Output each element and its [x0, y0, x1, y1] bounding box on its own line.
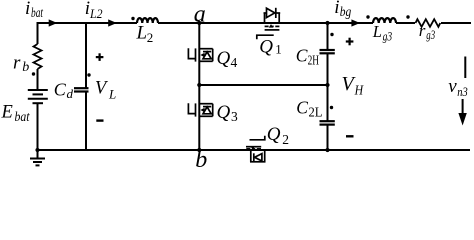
node dot bottom C2 branch — [325, 148, 329, 152]
svg-text:r: r — [13, 53, 21, 74]
svg-text:L: L — [372, 22, 382, 41]
svg-text:C: C — [54, 80, 67, 100]
svg-text:2H: 2H — [308, 53, 320, 68]
current arrow i_bg — [351, 19, 360, 26]
svg-text:C: C — [296, 98, 308, 118]
svg-text:g3: g3 — [426, 27, 435, 42]
node dot mid right — [325, 83, 329, 87]
capacitor C2L — [320, 121, 335, 124]
node b dot — [197, 148, 201, 152]
polarity dot Cd — [87, 73, 90, 76]
svg-text:i: i — [25, 0, 30, 19]
node dot top C2 branch — [325, 21, 329, 25]
svg-text:i: i — [334, 0, 339, 18]
wire Cd branch lower — [85, 91, 87, 150]
svg-text:2: 2 — [147, 30, 154, 45]
svg-text:L: L — [108, 86, 116, 101]
polarity dot rb — [32, 72, 35, 75]
svg-text:bg: bg — [340, 4, 352, 19]
svg-text:Q: Q — [217, 102, 231, 123]
transistor Q3 — [188, 103, 212, 116]
svg-text:H: H — [354, 84, 364, 99]
svg-text:bat: bat — [15, 110, 31, 125]
svg-text:Q: Q — [217, 48, 231, 69]
capacitor Cd — [74, 88, 89, 91]
inductor L2 — [137, 18, 158, 23]
svg-text:C: C — [296, 46, 308, 66]
wire top bus right of Lg3 — [396, 22, 415, 24]
polarity dot C2L — [330, 106, 333, 109]
current arrow i_bat — [49, 19, 58, 26]
svg-text:r: r — [419, 21, 426, 40]
svg-text:a: a — [194, 2, 206, 28]
node a dot — [197, 21, 201, 25]
polarity dot rg3 — [406, 15, 409, 18]
polarity dot L2 — [131, 17, 134, 20]
wire mid link — [199, 84, 327, 86]
wire Cd branch upper — [85, 23, 87, 88]
wire battery branch lower — [37, 104, 39, 151]
svg-text:L: L — [136, 23, 148, 44]
capacitor C2H — [320, 50, 335, 53]
wire top bus mid — [158, 22, 373, 24]
voltage arrow v_n3 upper segment — [464, 57, 466, 79]
transistor Q2 — [246, 136, 266, 162]
polarity dot Lg3 — [366, 15, 369, 18]
svg-text:Q: Q — [267, 124, 281, 145]
svg-text:g3: g3 — [383, 28, 393, 43]
node dot ground junction — [35, 148, 39, 152]
resistor rg3 — [416, 19, 441, 27]
plus sign VH — [346, 40, 354, 42]
wire battery branch upper — [37, 22, 39, 44]
svg-text:d: d — [67, 86, 74, 101]
minus sign VH — [346, 135, 354, 137]
svg-text:Q: Q — [259, 37, 273, 58]
svg-text:n3: n3 — [457, 84, 468, 99]
svg-text:v: v — [448, 76, 457, 97]
battery Ebat — [28, 90, 48, 103]
node dot mid left — [197, 83, 201, 87]
svg-text:3: 3 — [231, 109, 238, 124]
polarity dot C2H — [330, 33, 333, 36]
svg-text:2: 2 — [282, 132, 289, 147]
transistor Q4 — [188, 48, 212, 61]
transistor Q1 — [264, 8, 281, 30]
plus sign VL — [96, 56, 104, 58]
svg-text:b: b — [195, 147, 207, 173]
current arrow i_L2 — [108, 19, 117, 26]
svg-text:1: 1 — [275, 42, 282, 57]
svg-text:4: 4 — [231, 55, 238, 70]
svg-text:E: E — [1, 103, 13, 123]
svg-text:bat: bat — [31, 5, 44, 20]
svg-text:b: b — [22, 60, 29, 75]
voltage arrow v_n3 shaft and head — [462, 99, 464, 114]
svg-text:2L: 2L — [309, 105, 323, 120]
inductor Lg3 — [373, 18, 396, 23]
wire Q4 Q3 branch a to b — [198, 23, 200, 150]
overline of Q1 label — [257, 35, 274, 39]
resistor rb — [34, 44, 42, 69]
svg-text:L2: L2 — [89, 6, 103, 21]
wire battery branch mid — [37, 69, 39, 90]
ground — [37, 150, 39, 159]
minus sign VL — [96, 119, 103, 121]
wire C2 branch mid — [327, 54, 329, 122]
wire bottom bus — [37, 149, 471, 151]
wire top bus far right — [441, 22, 471, 24]
wire C2 branch lower — [327, 125, 329, 150]
wire C2 branch upper — [327, 23, 329, 50]
wire top bus left — [37, 22, 138, 24]
